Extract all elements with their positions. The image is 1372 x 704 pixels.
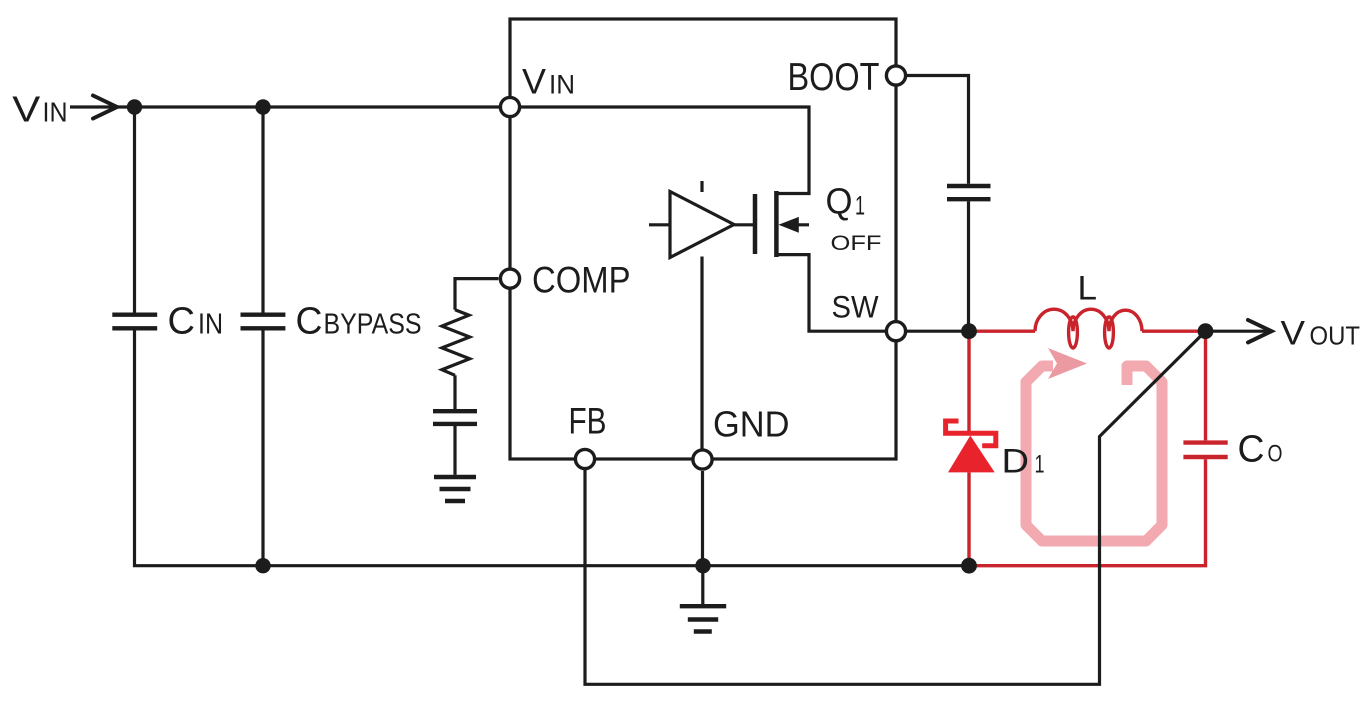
svg-text:GND: GND bbox=[713, 403, 790, 444]
svg-text:1: 1 bbox=[1035, 450, 1045, 478]
svg-text:FB: FB bbox=[569, 400, 607, 441]
svg-text:C: C bbox=[1238, 427, 1265, 470]
svg-text:1: 1 bbox=[855, 191, 865, 221]
svg-text:OUT: OUT bbox=[1310, 320, 1361, 350]
svg-text:L: L bbox=[1078, 269, 1098, 307]
svg-text:C: C bbox=[168, 299, 196, 342]
svg-text:D: D bbox=[1002, 442, 1030, 480]
svg-text:IN: IN bbox=[198, 308, 223, 340]
svg-text:V: V bbox=[1281, 314, 1306, 352]
svg-text:V: V bbox=[12, 88, 41, 129]
svg-text:OFF: OFF bbox=[831, 231, 882, 255]
svg-text:IN: IN bbox=[43, 96, 68, 127]
svg-text:BOOT: BOOT bbox=[788, 56, 880, 99]
svg-text:O: O bbox=[1268, 440, 1283, 467]
svg-text:V: V bbox=[522, 62, 547, 101]
svg-text:C: C bbox=[296, 299, 323, 342]
svg-text:SW: SW bbox=[832, 288, 879, 324]
svg-text:COMP: COMP bbox=[532, 260, 631, 301]
svg-text:Q: Q bbox=[826, 181, 853, 222]
svg-text:IN: IN bbox=[549, 69, 575, 99]
svg-text:BYPASS: BYPASS bbox=[324, 308, 422, 340]
